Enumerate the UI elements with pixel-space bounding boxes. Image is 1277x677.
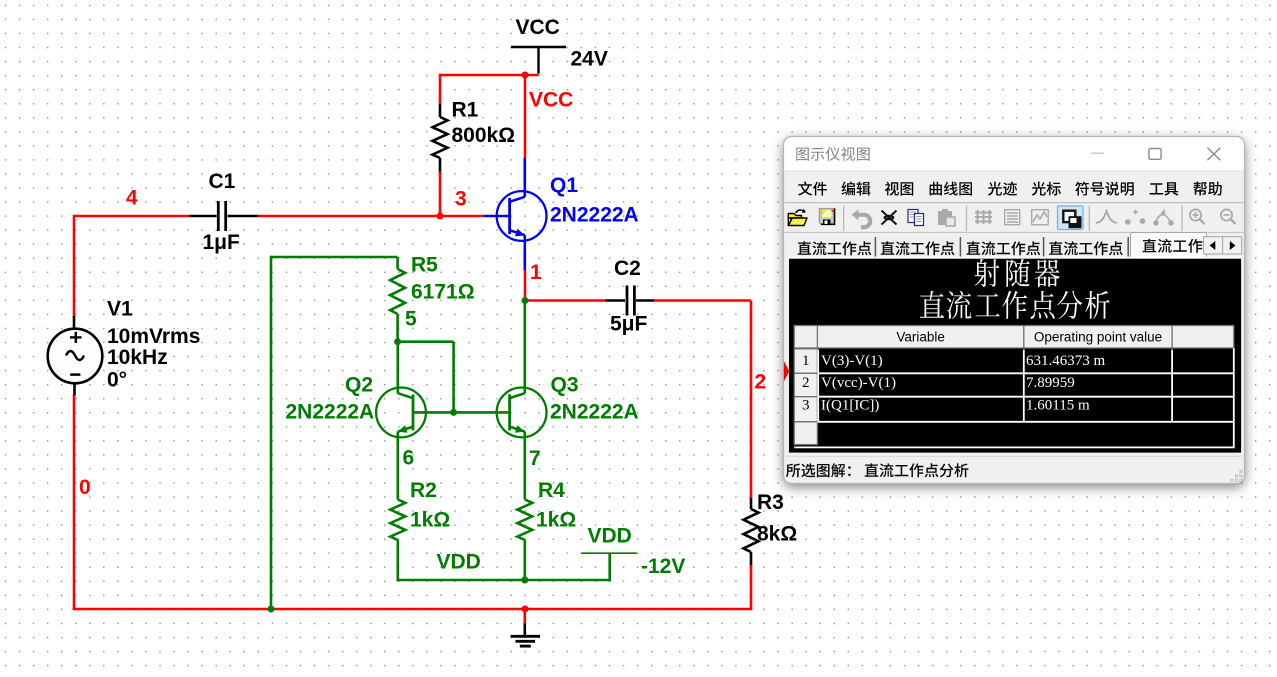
svg-text:Q1: Q1 <box>550 174 578 197</box>
svg-text:Variable: Variable <box>896 330 945 345</box>
svg-text:1μF: 1μF <box>203 231 241 254</box>
svg-text:0°: 0° <box>107 368 127 391</box>
svg-text:2: 2 <box>802 375 810 391</box>
svg-text:C1: C1 <box>209 170 236 193</box>
svg-text:R5: R5 <box>411 254 438 277</box>
svg-text:2N2222A: 2N2222A <box>286 401 375 424</box>
svg-text:1.60115 m: 1.60115 m <box>1026 398 1090 414</box>
svg-text:8kΩ: 8kΩ <box>757 523 797 546</box>
svg-text:6: 6 <box>403 447 415 470</box>
svg-text:1: 1 <box>530 261 542 284</box>
svg-text:VDD: VDD <box>437 551 481 574</box>
svg-text:V1: V1 <box>107 298 133 321</box>
svg-text:Q3: Q3 <box>551 374 579 397</box>
svg-text:1: 1 <box>802 353 810 369</box>
svg-text:R1: R1 <box>452 99 479 122</box>
svg-text:Operating point value: Operating point value <box>1034 330 1162 345</box>
svg-text:C2: C2 <box>614 257 641 280</box>
svg-text:631.46373 m: 631.46373 m <box>1026 353 1106 369</box>
svg-text:V(vcc)-V(1): V(vcc)-V(1) <box>821 375 896 391</box>
svg-text:V(3)-V(1): V(3)-V(1) <box>821 353 883 369</box>
svg-text:7: 7 <box>529 447 541 470</box>
svg-text:-12V: -12V <box>641 555 685 578</box>
svg-text:10mVrms: 10mVrms <box>107 325 200 348</box>
svg-text:800kΩ: 800kΩ <box>452 124 516 147</box>
svg-text:5: 5 <box>405 308 417 331</box>
svg-text:4: 4 <box>126 187 138 210</box>
svg-text:5μF: 5μF <box>610 313 648 336</box>
svg-text:1kΩ: 1kΩ <box>410 509 450 532</box>
svg-text:I(Q1[IC]): I(Q1[IC]) <box>821 398 879 414</box>
svg-text:Q2: Q2 <box>345 374 373 397</box>
svg-text:0: 0 <box>79 476 91 499</box>
svg-text:2N2222A: 2N2222A <box>550 204 639 227</box>
svg-text:2: 2 <box>755 371 767 394</box>
svg-text:1kΩ: 1kΩ <box>536 509 576 532</box>
svg-text:10kHz: 10kHz <box>107 346 168 369</box>
svg-text:VDD: VDD <box>588 525 632 548</box>
svg-text:R4: R4 <box>538 479 565 502</box>
svg-text:3: 3 <box>455 188 467 211</box>
svg-text:3: 3 <box>802 398 810 414</box>
svg-text:R2: R2 <box>410 479 437 502</box>
svg-text:6171Ω: 6171Ω <box>411 281 475 304</box>
svg-text:7.89959: 7.89959 <box>1026 375 1075 391</box>
svg-text:VCC: VCC <box>516 16 560 39</box>
svg-text:R3: R3 <box>757 491 784 514</box>
svg-text:VCC: VCC <box>529 89 573 112</box>
svg-text:2N2222A: 2N2222A <box>550 401 639 424</box>
svg-text:24V: 24V <box>571 48 608 71</box>
